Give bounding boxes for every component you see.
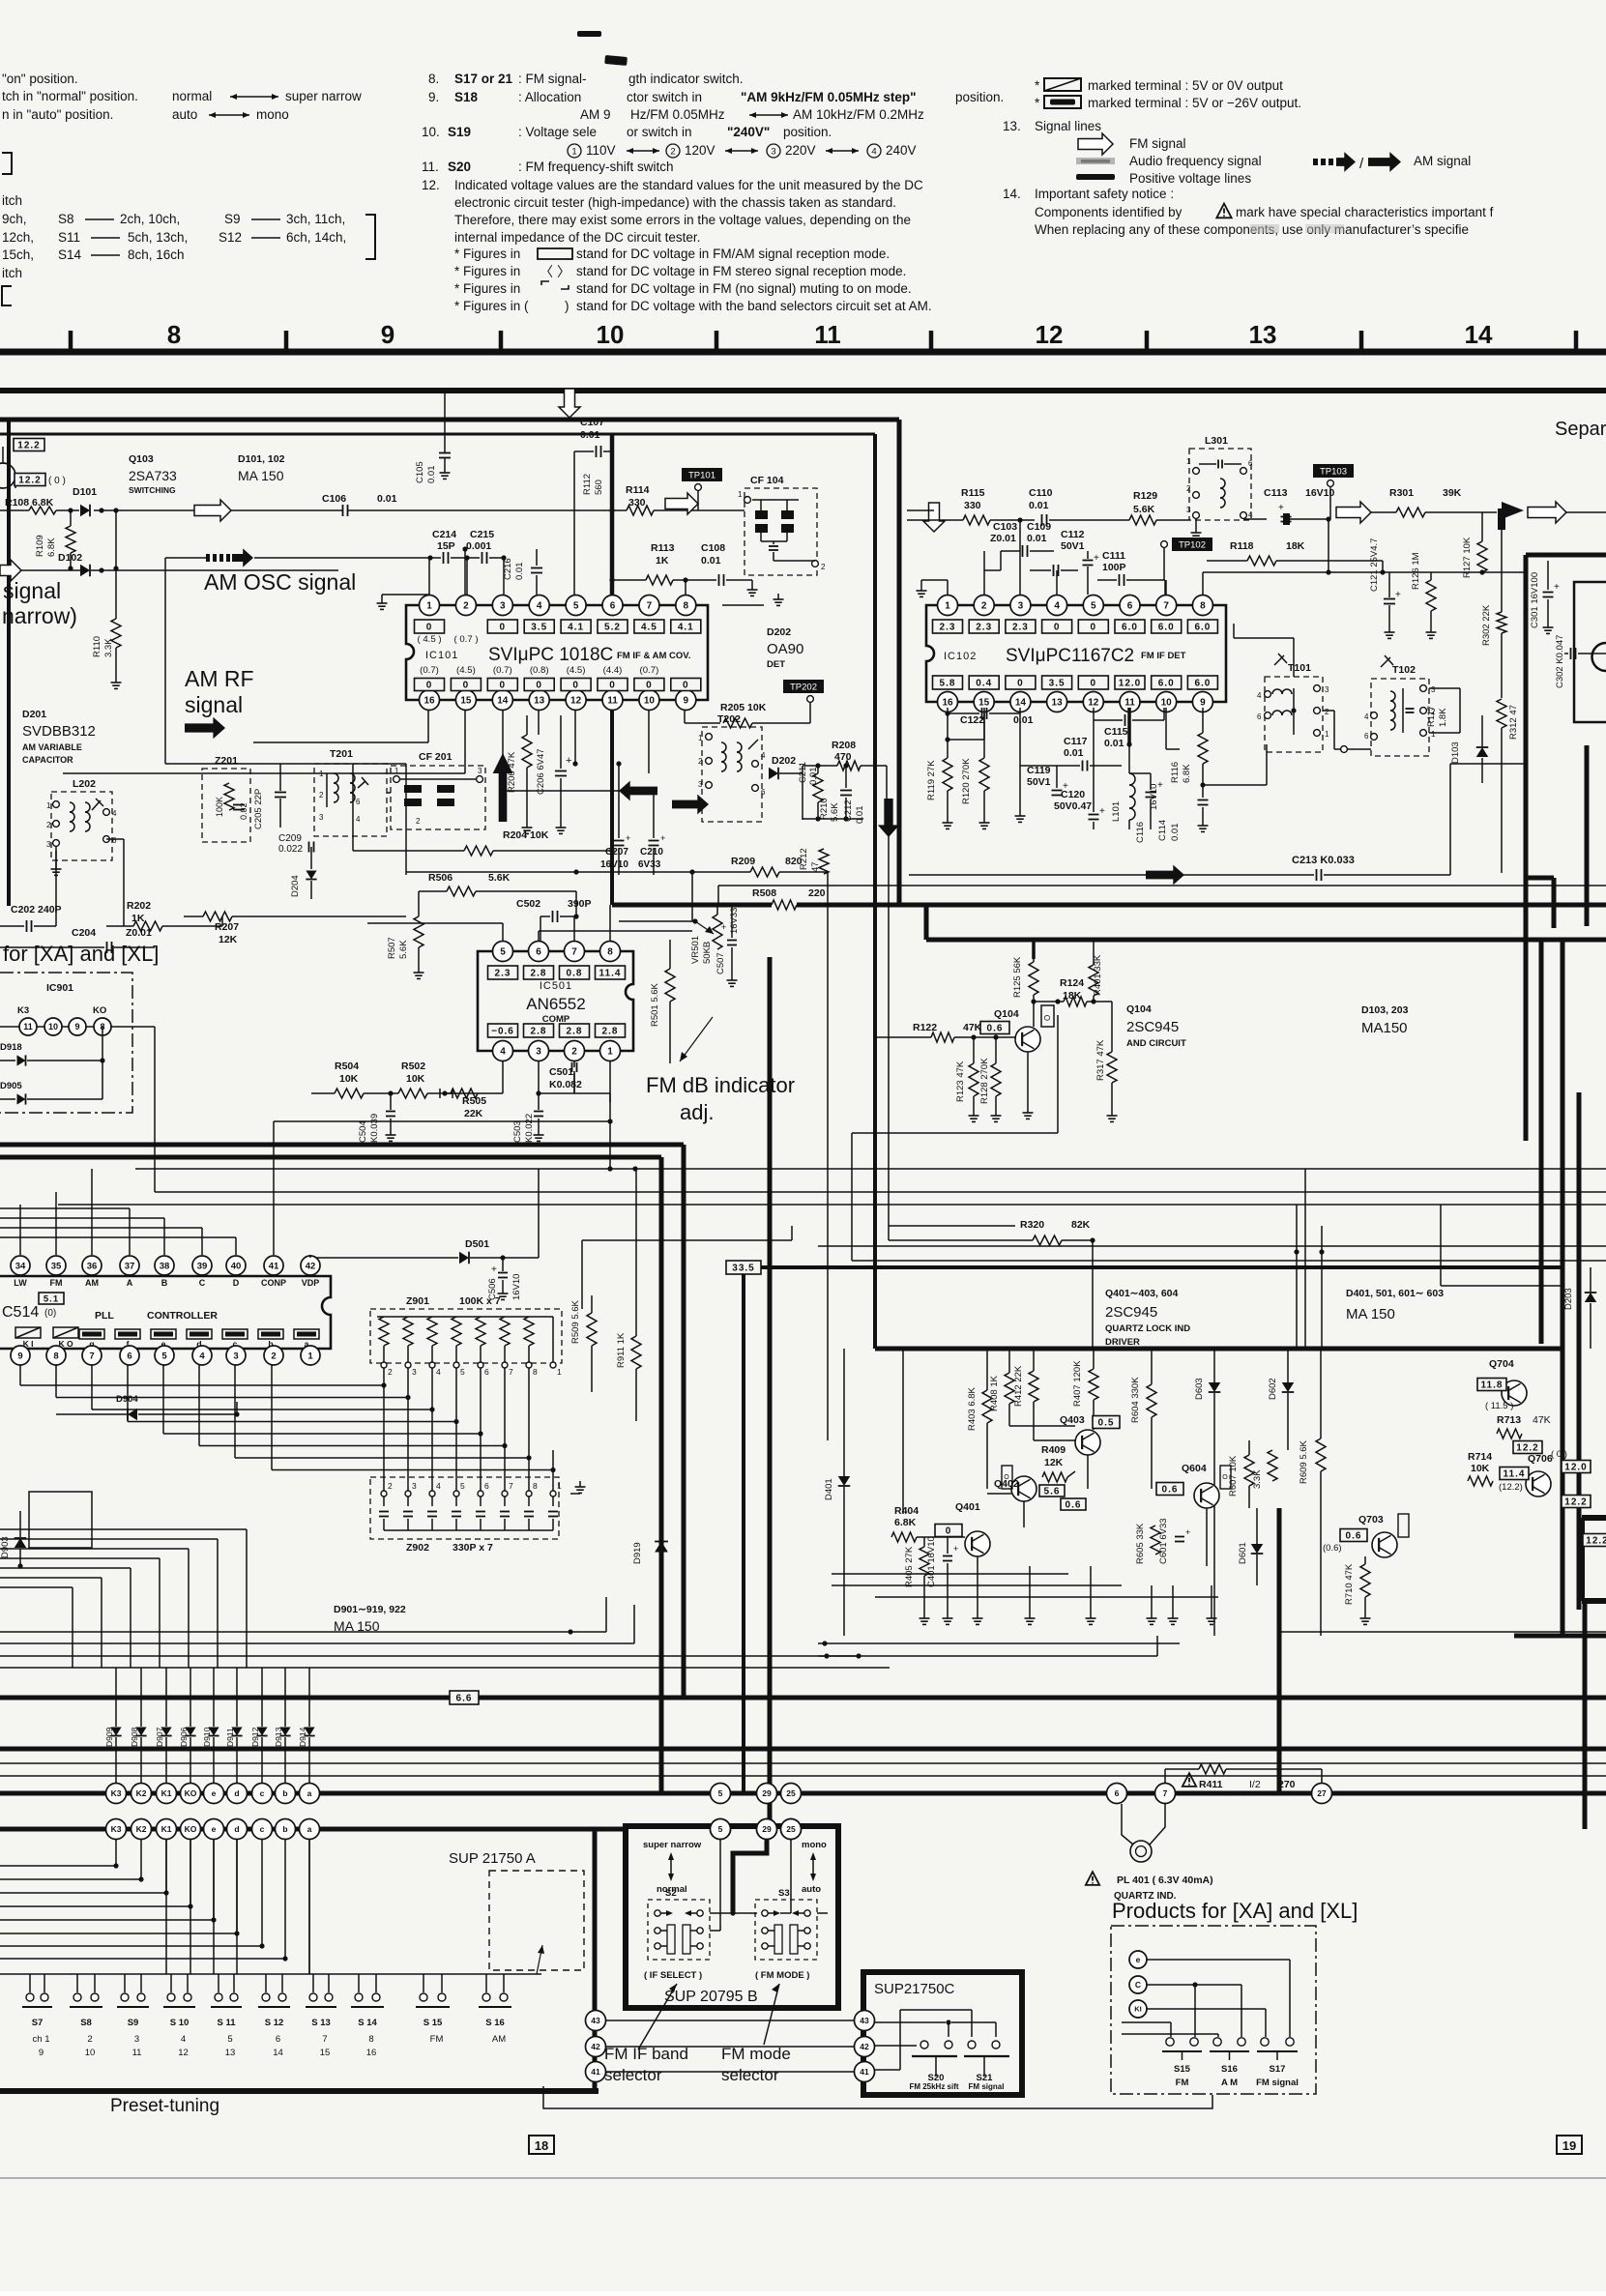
svg-text:A: A: [127, 1278, 133, 1288]
svg-text:12K: 12K: [219, 934, 238, 945]
svg-text:Preset-tuning: Preset-tuning: [110, 2096, 219, 2116]
scan seam line: [0, 2177, 1606, 2179]
svg-text:C114: C114: [1157, 820, 1168, 841]
svg-text:11.4: 11.4: [599, 969, 622, 979]
solid arrow AM into pin14: [503, 781, 657, 801]
svg-text:D401: D401: [824, 1478, 834, 1500]
svg-text:8: 8: [533, 1367, 538, 1377]
svg-text:2.3: 2.3: [495, 969, 511, 979]
wire Q104 collector: [1033, 1002, 1035, 1027]
svg-text:TP202: TP202: [790, 683, 817, 693]
svg-text:T102: T102: [1392, 664, 1416, 676]
FM signal arrow left edge: [0, 560, 338, 581]
svg-text:internal impedance of the DC c: internal impedance of the DC circuit tes…: [454, 230, 700, 245]
svg-text:I/2: I/2: [1249, 1779, 1261, 1790]
svg-text:2SA733: 2SA733: [129, 468, 177, 483]
wire y1652: [875, 1596, 1218, 1598]
svg-text:QUARTZ LOCK IND: QUARTZ LOCK IND: [1105, 1323, 1190, 1334]
svg-text:1: 1: [1186, 457, 1191, 466]
svg-text:6.0: 6.0: [1158, 679, 1175, 689]
resistor R119 27K: [926, 713, 984, 828]
svg-text:1: 1: [557, 1481, 562, 1491]
svg-text:6: 6: [276, 2034, 280, 2045]
svg-text:7: 7: [647, 601, 653, 612]
svg-text:position.: position.: [955, 90, 1004, 104]
svg-text:C204: C204: [72, 927, 96, 939]
svg-text:6: 6: [1115, 1788, 1120, 1798]
capacitor C204 Z0.01: [0, 927, 155, 953]
capacitor C213 K0.033: [909, 764, 1450, 881]
wires mid right verticals: [1305, 1169, 1562, 1349]
text FM IF band selector: [604, 2045, 688, 2084]
resistor R408 1K: [989, 1349, 1014, 1426]
svg-text:KI: KI: [1134, 2005, 1142, 2014]
heavy vertical x1594: [1539, 940, 1544, 1344]
ruler scale with numbers 8-14: [0, 320, 1606, 352]
svg-text:13: 13: [225, 2048, 236, 2058]
svg-text:FM IF & AM COV.: FM IF & AM COV.: [617, 651, 690, 661]
svg-text:3: 3: [1431, 685, 1436, 694]
svg-text:VR501: VR501: [690, 936, 701, 964]
wire Q cluster row: [987, 1426, 1207, 1566]
wire y1246: [58, 1204, 1606, 1206]
switches S20 S21: [875, 2010, 1009, 2091]
open arrow FM mid: [665, 493, 698, 514]
svg-text:3: 3: [500, 601, 506, 612]
svg-text:5: 5: [460, 1481, 465, 1491]
svg-text:S15: S15: [1174, 2064, 1191, 2075]
resistor R501 5.6K: [650, 940, 675, 1063]
svg-text:* Figures in: * Figures in: [454, 281, 520, 296]
dashed box Z201: [202, 755, 250, 842]
text FM mode selector: [721, 2045, 791, 2084]
diode D202: [769, 755, 803, 779]
connector box left: [29, 1492, 92, 1548]
wires IC514 top pins: [20, 1121, 310, 1258]
svg-text:S3: S3: [778, 1888, 790, 1899]
svg-text:D901∼919, 922: D901∼919, 922: [334, 1604, 406, 1615]
svg-text:5: 5: [718, 1788, 723, 1798]
resistor R108 6.8K: [0, 497, 79, 514]
svg-text:S 14: S 14: [358, 2018, 377, 2028]
svg-text:FM signal: FM signal: [969, 2082, 1005, 2091]
wire pin9-T101: [1203, 744, 1267, 785]
capacitor C103 Z0.01: [984, 521, 1054, 595]
network Z901: [370, 1295, 562, 1363]
svg-text:C110: C110: [1029, 487, 1053, 499]
svg-text:2.8: 2.8: [567, 1027, 583, 1037]
svg-text:S9: S9: [224, 212, 241, 226]
svg-text:6: 6: [484, 1481, 489, 1491]
svg-text:4: 4: [761, 751, 766, 760]
transistor Q103 label 2SA733 SWITCHING: [129, 453, 177, 495]
svg-text:+: +: [1554, 582, 1560, 593]
svg-text:D904: D904: [116, 1394, 138, 1405]
svg-text:0.01: 0.01: [580, 429, 600, 441]
transistor Q402: [994, 1466, 1037, 1501]
svg-text:5: 5: [161, 1351, 167, 1361]
svg-text:6: 6: [761, 788, 766, 797]
svg-text:itch: itch: [2, 193, 22, 208]
network Z902: [370, 1477, 559, 1554]
svg-text:25: 25: [786, 1824, 796, 1834]
resistor R126 1M: [1411, 552, 1437, 638]
svg-text:( 4.5 ): ( 4.5 ): [417, 634, 441, 645]
svg-text:120V: 120V: [685, 143, 715, 158]
svg-text:L301: L301: [1205, 435, 1228, 447]
svg-text:C504: C504: [358, 1120, 368, 1143]
svg-text:d: d: [234, 1788, 239, 1798]
svg-text:C: C: [199, 1278, 206, 1288]
wire AM OSC line y528 with C106: [94, 500, 612, 521]
svg-text:82K: 82K: [1071, 1219, 1091, 1231]
module box right edge: [1574, 582, 1606, 722]
svg-text:Q103: Q103: [129, 453, 154, 465]
svg-text:signal: signal: [3, 578, 61, 603]
svg-text:14: 14: [1465, 320, 1493, 349]
svg-text:S16: S16: [1221, 2064, 1238, 2075]
svg-text:R408 1K: R408 1K: [989, 1375, 1000, 1411]
svg-text:6.0: 6.0: [1194, 623, 1211, 633]
svg-text:0: 0: [609, 681, 616, 691]
svg-text:DET: DET: [767, 659, 785, 670]
inductor L101: [1111, 741, 1135, 829]
svg-text:R714: R714: [1468, 1451, 1492, 1463]
svg-text:6V33: 6V33: [638, 859, 661, 870]
wire pin7 stub: [1165, 580, 1167, 595]
wire IC501 pins top: [367, 905, 692, 941]
svg-text:2: 2: [463, 601, 469, 612]
svg-text:0.6: 0.6: [1066, 1500, 1082, 1511]
svg-text:7: 7: [1163, 601, 1169, 612]
capacitor C112 50V1: [1061, 529, 1099, 595]
svg-text:2: 2: [388, 1481, 393, 1491]
op-amp IC501 AN6552 COMP: [478, 942, 633, 1061]
diode D103: [1450, 715, 1488, 783]
wire corner y1283: [582, 1226, 792, 1309]
svg-text:12: 12: [178, 2048, 189, 2058]
resistor R502 10K: [391, 1061, 503, 1098]
svg-text:C202 240P: C202 240P: [11, 904, 62, 915]
open arrow to separate page: [1528, 502, 1606, 523]
svg-text:S9: S9: [128, 2018, 139, 2028]
svg-text:15: 15: [460, 696, 472, 707]
svg-text:MA150: MA150: [1361, 1020, 1408, 1036]
svg-text:C121 25V4.7: C121 25V4.7: [1369, 538, 1380, 592]
resistor R604 330K: [1130, 1349, 1156, 1489]
svg-text:41: 41: [860, 2067, 869, 2077]
svg-text:Separ: Separ: [1555, 419, 1606, 440]
svg-text:CONTROLLER: CONTROLLER: [147, 1310, 218, 1322]
inductor L301: [1186, 435, 1253, 520]
svg-text:R605 33K: R605 33K: [1135, 1523, 1146, 1564]
resistor R714 10K: [1468, 1451, 1493, 1486]
svg-text:0.01: 0.01: [426, 466, 437, 484]
junction dots bus: [1294, 1205, 1324, 1349]
svg-text:S11: S11: [58, 230, 80, 245]
transistor Q401: [935, 1501, 990, 1556]
wire y1209: [135, 1166, 1606, 1171]
svg-text:FM: FM: [430, 2034, 444, 2045]
svg-text:D903: D903: [0, 1536, 11, 1558]
grounds Q401 row: [973, 1556, 1217, 1624]
svg-text:S19: S19: [448, 125, 471, 139]
resistor R312 47: [1497, 699, 1519, 873]
svg-text:KO: KO: [185, 1824, 197, 1834]
wire T101-T102: [1323, 711, 1371, 752]
svg-text:Hz/FM 0.05MHz: Hz/FM 0.05MHz: [630, 107, 725, 122]
svg-text:47K: 47K: [1533, 1414, 1551, 1426]
capacitor C215 0.001: [466, 529, 494, 564]
svg-text:〈: 〈: [540, 264, 553, 279]
svg-text:FM: FM: [50, 1278, 63, 1288]
svg-text:330P x 7: 330P x 7: [453, 1542, 493, 1554]
svg-text:TP103: TP103: [1320, 467, 1347, 478]
transistor Q604: [1156, 1463, 1231, 1508]
svg-text:R116: R116: [1170, 762, 1181, 783]
svg-text:0.5: 0.5: [1098, 1418, 1115, 1429]
svg-text:R911 1K: R911 1K: [616, 1332, 627, 1368]
heavy vertical x1633: [1577, 1092, 1582, 1610]
switch S2 IF SELECT: [644, 1900, 710, 1981]
svg-text:Indicated voltage values are t: Indicated voltage values are the standar…: [454, 178, 923, 192]
resistor R603 3.3K: [1252, 1450, 1277, 1489]
svg-text:10.: 10.: [422, 125, 440, 139]
svg-text:O: O: [1043, 1015, 1052, 1021]
svg-text:6: 6: [1248, 459, 1253, 468]
svg-text:15: 15: [320, 2048, 331, 2058]
svg-text:R128 270K: R128 270K: [979, 1058, 990, 1104]
svg-text:0: 0: [572, 681, 579, 691]
svg-text:R205 10K: R205 10K: [720, 702, 767, 713]
svg-text:3: 3: [412, 1481, 417, 1491]
heavy partial box right edge bottom: [1582, 1518, 1606, 1601]
svg-text:R209: R209: [731, 856, 755, 867]
svg-text:S 13: S 13: [311, 2018, 331, 2028]
svg-text:selector: selector: [604, 2066, 662, 2084]
svg-text:S20: S20: [448, 160, 471, 174]
svg-text:S 16: S 16: [485, 2018, 505, 2028]
svg-text:S8: S8: [58, 212, 74, 226]
open arrow after TP103: [1336, 502, 1385, 523]
svg-text:T101: T101: [1288, 662, 1311, 674]
resistor R508 220: [752, 887, 826, 911]
svg-text:SUP21750C: SUP21750C: [874, 1981, 955, 1997]
svg-text:2ch, 10ch,: 2ch, 10ch,: [120, 212, 180, 226]
wire y1172: [852, 1015, 1058, 1261]
svg-text:e: e: [212, 1788, 217, 1798]
svg-text:S18: S18: [454, 90, 479, 104]
svg-text:R204 10K: R204 10K: [503, 829, 549, 841]
svg-text:0: 0: [1054, 623, 1061, 633]
svg-text:0.001: 0.001: [466, 540, 491, 552]
svg-text:7: 7: [509, 1481, 513, 1491]
svg-text:12: 12: [1036, 320, 1064, 349]
svg-text:6.8K: 6.8K: [1182, 764, 1192, 783]
svg-text:8.: 8.: [428, 72, 439, 86]
svg-text:R412 22K: R412 22K: [1013, 1365, 1024, 1407]
wire products exit: [543, 2086, 1212, 2108]
svg-text:0.01: 0.01: [1064, 747, 1084, 759]
svg-text:9: 9: [74, 1022, 79, 1032]
svg-text:270: 270: [1278, 1779, 1296, 1790]
resistor R125 56K: [1012, 940, 1038, 1002]
svg-text:a: a: [307, 1824, 312, 1834]
ground C117: [1015, 802, 1026, 822]
svg-text:240V: 240V: [886, 143, 917, 158]
transformer T101: [1257, 654, 1329, 752]
svg-text:D918: D918: [0, 1042, 22, 1053]
svg-text:Q403: Q403: [1060, 1414, 1085, 1426]
svg-text:OA90: OA90: [767, 641, 803, 657]
dashed box T201: [314, 748, 387, 836]
svg-text:COMP: COMP: [542, 1014, 570, 1025]
svg-text:6: 6: [1257, 712, 1262, 721]
wire y592 right: [1203, 572, 1526, 595]
svg-text:C214: C214: [432, 529, 456, 540]
dash-dot box products: [1111, 1926, 1316, 2094]
bus 6.6 line: [0, 1696, 1606, 1700]
svg-text:R507: R507: [387, 937, 397, 959]
svg-text:−0.6: −0.6: [491, 1027, 514, 1037]
capacitor C115 0.01: [1094, 708, 1164, 766]
svg-text:3: 3: [46, 840, 51, 849]
svg-text:C108: C108: [701, 542, 725, 554]
wire staircase IC514 to Z901: [20, 1365, 556, 1472]
svg-text:4: 4: [356, 815, 361, 824]
capacitor C507 16V: [715, 905, 740, 986]
svg-text:5.6K: 5.6K: [1133, 504, 1155, 515]
bus row2 y1892: [0, 1827, 626, 1832]
svg-text:"on" position.: "on" position.: [2, 72, 78, 86]
svg-text:3: 3: [478, 767, 482, 775]
svg-text:C302 K0.047: C302 K0.047: [1555, 635, 1565, 688]
label D103,203 MA150: [1361, 1004, 1409, 1036]
svg-text:2: 2: [87, 2034, 92, 2045]
ground IC102 pin1 rail: [917, 580, 949, 596]
svg-text:4: 4: [1054, 601, 1060, 612]
svg-text:0.01: 0.01: [701, 555, 721, 567]
diode D603: [1194, 1349, 1220, 1636]
svg-text:8: 8: [607, 947, 613, 958]
text for [XA] and [XL]: [3, 942, 159, 966]
AM RF signal label: [185, 666, 254, 739]
capacitor C121 25V4.7: [1369, 538, 1401, 639]
svg-text:12ch,: 12ch,: [2, 230, 34, 245]
svg-text:0.01: 0.01: [514, 563, 525, 581]
wire ladder y1688: [0, 1597, 606, 1635]
svg-text:1: 1: [945, 601, 950, 612]
svg-text:ctor switch in: ctor switch in: [627, 90, 702, 104]
svg-text:* Figures in (: * Figures in (: [454, 299, 529, 313]
svg-text:D203: D203: [1563, 1288, 1574, 1310]
svg-text:R207: R207: [215, 921, 239, 933]
svg-text:11: 11: [607, 696, 618, 707]
svg-text:stand for DC voltage in FM/AM: stand for DC voltage in FM/AM signal rec…: [576, 247, 890, 261]
svg-text:5.6K: 5.6K: [398, 940, 409, 959]
svg-text:R115: R115: [961, 487, 985, 499]
svg-text:D911: D911: [225, 1728, 235, 1747]
wire pin10 down: [1166, 708, 1180, 749]
svg-text:0.8: 0.8: [567, 969, 583, 979]
svg-text:3: 3: [771, 147, 775, 158]
svg-text:LW: LW: [14, 1278, 27, 1288]
diode D602: [1268, 1349, 1294, 1450]
svg-text:12.2: 12.2: [1564, 1497, 1587, 1508]
text Separate: [1555, 419, 1606, 440]
svg-text:Important safety notice :: Important safety notice :: [1035, 187, 1174, 201]
transistor Q703: [1323, 1514, 1409, 1557]
svg-text:11: 11: [23, 1022, 33, 1032]
svg-text:0: 0: [1091, 623, 1097, 633]
svg-text:L101: L101: [1111, 801, 1122, 822]
svg-text:16V33: 16V33: [729, 908, 740, 934]
svg-text:D603: D603: [1194, 1378, 1205, 1400]
svg-text:0.01: 0.01: [1029, 500, 1049, 511]
svg-text:(12.2): (12.2): [1499, 1482, 1523, 1493]
heavy L bus y1184: [0, 1145, 684, 1698]
resistor R116 6.8K: [1170, 708, 1208, 785]
svg-text:C113: C113: [1264, 487, 1288, 499]
svg-text:D101: D101: [73, 486, 97, 498]
solid arrow down x919: [878, 799, 899, 837]
svg-text:0.6: 0.6: [1346, 1531, 1362, 1542]
svg-text:T201: T201: [330, 748, 353, 760]
transistor Q102 partial at left edge: [0, 447, 15, 488]
svg-text:AM RF: AM RF: [185, 666, 254, 691]
svg-text:9: 9: [684, 696, 689, 707]
wire pin8 up: [685, 580, 686, 596]
svg-text:for [XA] and [XL]: for [XA] and [XL]: [3, 942, 159, 966]
capacitor C210 6V33: [638, 791, 665, 875]
svg-text:3: 3: [698, 780, 703, 789]
FM dB indicator adj label: [646, 1017, 795, 1124]
svg-text:37: 37: [125, 1261, 135, 1271]
svg-text:R403 6.8K: R403 6.8K: [967, 1386, 978, 1431]
inductor L202: [46, 778, 117, 860]
svg-text:(0.7): (0.7): [493, 665, 512, 676]
thick vertical x1639: [1583, 1601, 1588, 1829]
svg-text:AM: AM: [492, 2034, 506, 2045]
wire bottom AM row: [803, 816, 863, 821]
wire pin1 down: [607, 1061, 612, 1172]
svg-text:SUP 21750 A: SUP 21750 A: [449, 1850, 536, 1867]
text signal (narrow) left edge: [2, 578, 77, 628]
resistor R202 1K: [106, 839, 222, 931]
svg-text:22K: 22K: [464, 1108, 483, 1119]
svg-text:470: 470: [834, 751, 852, 763]
svg-text:R317 47K: R317 47K: [1095, 1039, 1106, 1081]
svg-text:16: 16: [942, 698, 953, 709]
svg-text:B: B: [161, 1278, 168, 1288]
svg-text:T202: T202: [717, 713, 741, 725]
svg-text:330: 330: [964, 500, 981, 511]
svg-text:4: 4: [1248, 510, 1253, 519]
svg-text:: FM signal-: : FM signal-: [518, 72, 587, 86]
svg-text:4: 4: [537, 601, 542, 612]
svg-text:S12: S12: [219, 230, 242, 245]
hybrid IC901: [0, 982, 155, 1035]
capacitor C205 22P: [253, 764, 286, 829]
wire pin2 elbow: [539, 1073, 610, 1102]
svg-text:39: 39: [197, 1261, 208, 1271]
resistor R118 18K: [1207, 540, 1386, 575]
svg-text:C503: C503: [512, 1120, 523, 1143]
capacitor C502 390P: [516, 898, 592, 941]
boxed 12.2 (0) left: [15, 474, 66, 487]
wire CONP up: [274, 1119, 613, 1123]
svg-text:C502: C502: [516, 898, 540, 910]
